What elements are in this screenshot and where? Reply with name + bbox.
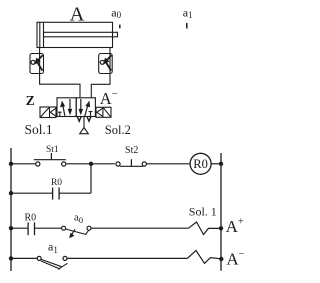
solenoid Sol.2 box [96, 107, 111, 117]
wire cylinder right port down [109, 48, 111, 54]
rung 4 wire right [67, 257, 188, 259]
svg-text:a0: a0 [111, 6, 121, 21]
solenoid Sol.1 diagonal [41, 108, 49, 117]
svg-text:A−: A− [100, 89, 118, 108]
svg-text:A+: A+ [226, 216, 244, 236]
valve V1 supply triangle [80, 128, 89, 134]
contact a0 lever [66, 229, 86, 234]
ladder left rail [10, 148, 12, 271]
contact St2 actuator tick [130, 159, 132, 166]
rung 4 wire left [11, 257, 37, 259]
svg-text:Z: Z [26, 93, 35, 108]
svg-text:R0: R0 [24, 213, 36, 224]
node rung1-right rail [219, 162, 223, 166]
svg-text:A−: A− [226, 249, 244, 269]
flow control valve right through-wire [109, 54, 111, 74]
solenoid Sol.1 box [40, 107, 56, 118]
flow control valve left arrow [37, 55, 43, 70]
valve V1 left chamber seat T [58, 112, 62, 116]
contact St1 actuator tick [50, 153, 52, 160]
node rung4-right rail [219, 257, 223, 261]
rung 1 wire mid [66, 163, 115, 165]
contact St1 terminal 2 [62, 162, 66, 166]
contact a0 actuator arrow [72, 229, 75, 234]
wire right port to valve port 2 [91, 74, 110, 98]
contact St1 bridge bar [34, 159, 66, 161]
svg-text:a0: a0 [74, 212, 83, 225]
valve V1 right chamber seat T [89, 112, 93, 117]
flow control valve right arrow [106, 55, 112, 70]
coil Sol.2 zigzag (A-) [188, 251, 222, 264]
svg-text:St1: St1 [46, 145, 59, 155]
wire cylinder left port down [39, 48, 41, 54]
contact a1 lever lower [41, 261, 60, 269]
solenoid Sol.1 divider [49, 107, 51, 118]
contact St2 bridge [120, 165, 143, 167]
flow control valve left through-wire [39, 54, 41, 74]
valve V1 body left chamber [57, 98, 76, 117]
valve V1 supply line [83, 117, 85, 128]
cylinder A rod [44, 32, 118, 37]
contact a1 terminal 1 [37, 256, 41, 260]
contact R0 plate 2 (rung3) [34, 222, 36, 235]
rung 3 wire mid [35, 227, 62, 229]
node rail-rung3 [9, 226, 13, 230]
coil Sol.1 zigzag (A+) [189, 222, 222, 235]
rung 2 wire left [11, 192, 53, 194]
a0 position tick [119, 25, 121, 29]
rung 1 wire right [146, 163, 190, 165]
wire left port to valve port 4 [40, 74, 80, 98]
svg-text:a1: a1 [183, 6, 193, 21]
svg-text:a1: a1 [48, 239, 58, 254]
svg-text:Sol.1: Sol.1 [25, 122, 53, 137]
coil R0 circle [190, 153, 211, 174]
solenoid Sol.2 diagonal [103, 108, 110, 117]
svg-text:A: A [70, 4, 85, 26]
wire rung2 branch up [90, 164, 92, 193]
contact R0 plate 1 (rung3) [27, 222, 29, 235]
valve V1 exhaust check left [77, 117, 81, 122]
node junction rung1/rung2 branch [89, 162, 93, 166]
rung 1 wire to rail [211, 163, 221, 165]
node rung3-right rail [219, 226, 223, 230]
valve V1 right chamber down arrow [80, 99, 82, 110]
rung 2 wire right [59, 192, 91, 194]
node rail-rung2 [9, 191, 13, 195]
svg-text:Sol. 1: Sol. 1 [189, 205, 217, 219]
contact St2 terminal 2 [142, 162, 146, 166]
valve V1 body right chamber [76, 98, 95, 117]
valve V1 left chamber up arrow [63, 106, 65, 116]
valve V1 left chamber down arrow [69, 99, 71, 110]
solenoid Sol.1 pilot triangle [50, 108, 56, 116]
solenoid Sol.2 pilot triangle [97, 108, 103, 116]
flow control valve left check ball [31, 60, 35, 64]
cylinder A piston line 2 [43, 22, 45, 47]
flow control valve right body [99, 54, 113, 74]
contact R0 plate 1 (rung2) [52, 188, 54, 200]
cylinder A body [37, 22, 113, 47]
contact a1 tail [58, 263, 68, 269]
solenoid Sol.2 divider [102, 107, 104, 117]
contact a0 terminal 1 [62, 226, 66, 230]
contact a0 terminal 2 [87, 226, 91, 230]
svg-text:Sol.2: Sol.2 [105, 123, 131, 137]
contact St1 terminal 1 [36, 162, 40, 166]
svg-text:R0: R0 [193, 157, 208, 171]
a1 position tick [186, 23, 188, 29]
valve V1 exhaust check right [87, 117, 91, 122]
rung 3 wire left [11, 227, 28, 229]
contact a0 wedge line [85, 230, 88, 235]
svg-text:R0: R0 [51, 178, 62, 188]
node rail-rung1 [9, 162, 13, 166]
ladder right rail [220, 153, 222, 271]
contact R0 plate 2 (rung2) [58, 188, 60, 200]
contact a1 lever upper [41, 259, 62, 266]
flow control valve right check ball [100, 60, 104, 64]
node rail-rung4 [9, 256, 13, 260]
rung 1 wire left [11, 163, 36, 165]
cylinder A piston line 1 [39, 22, 41, 47]
contact a1 terminal 2 [63, 256, 67, 260]
flow control valve left body [30, 54, 44, 74]
svg-text:St2: St2 [125, 145, 138, 156]
valve V1 right chamber up arrow [85, 106, 88, 116]
contact St2 terminal 1 [116, 162, 120, 166]
rung 3 wire right [91, 227, 189, 229]
